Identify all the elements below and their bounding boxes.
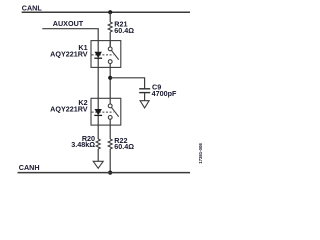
junction CANL/R21 [108,10,112,14]
svg-text:AQY221RV: AQY221RV [50,104,88,113]
svg-text:3.48kΩ: 3.48kΩ [71,140,95,149]
K1 optocoupler dashed line [92,54,114,56]
svg-text:AQY221RV: AQY221RV [50,49,88,58]
capacitor C9 [139,89,150,93]
ground under R20 [93,161,103,168]
svg-text:AUXOUT: AUXOUT [53,19,84,28]
wire R20 to ground [97,149,99,161]
ground under C9 [140,101,149,108]
K2 optocoupler dashed line [92,111,114,113]
junction switch midpoint to C9 [108,76,112,80]
wire CANL rail [22,11,190,13]
wire K1 switch to K2 switch [109,67,111,98]
wire CANH rail [18,172,191,174]
svg-text:CANL: CANL [22,3,43,12]
wire R21 to K1 switch [109,32,111,47]
svg-text:17381-008: 17381-008 [198,143,203,164]
K1 switch [108,41,118,68]
K2 switch [108,98,118,125]
junction R22/CANH [108,171,112,175]
relay K2 box [91,98,121,125]
wire AUXOUT to K1 LED anode [42,29,98,41]
resistor R22 [108,139,112,149]
svg-text:60.4Ω: 60.4Ω [114,26,134,35]
relay K1 box [91,41,121,68]
wire R22 to CANH [109,149,111,173]
svg-text:60.4Ω: 60.4Ω [114,142,134,151]
wire C9 to ground [144,93,146,101]
K2 LED [94,98,102,125]
wire K2 LED cathode to R20 [97,125,99,139]
svg-text:4700pF: 4700pF [152,89,177,98]
resistor R21 [108,22,112,32]
resistor R20 [96,139,100,149]
wire CANL to R21 [109,12,111,22]
K1 LED [94,41,102,68]
wire K1 LED cathode to K2 LED anode [97,67,99,98]
wire midpoint to C9 [110,78,144,89]
svg-text:CANH: CANH [19,163,40,172]
wire K2 switch to R22 [109,125,111,139]
